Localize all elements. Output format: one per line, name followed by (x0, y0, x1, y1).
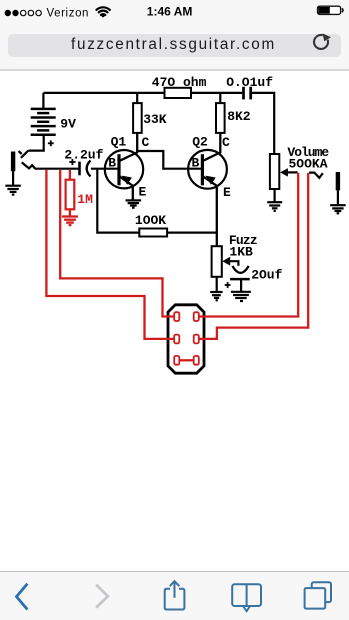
capacitor C3 20uf plus sign (225, 282, 231, 288)
resistor R3 8K2 stub (219, 93, 221, 103)
wire top rail middle segment (191, 92, 242, 94)
fuzz wiper wire (230, 261, 239, 266)
footswitch pin 3 (174, 335, 179, 344)
svg-text:8K2: 8K2 (227, 109, 251, 124)
battery (318, 6, 343, 14)
wire fuzz pot to ground (216, 277, 218, 292)
footswitch pin 2 (194, 312, 199, 321)
transistor Q2 emitter (203, 176, 217, 246)
svg-text:33K: 33K (143, 112, 167, 127)
wire red input jack to footswitch pin4 (46, 170, 174, 339)
transistor Q2 collector (203, 133, 220, 161)
svg-text:B: B (108, 156, 116, 171)
svg-text:2.2uf: 2.2uf (64, 148, 103, 163)
wire input to cap (35, 168, 79, 170)
transistor Q1 emitter (120, 176, 133, 199)
wire output jack to ground (337, 190, 339, 204)
volume pot wiper arrow (280, 168, 288, 176)
resistor R3 8K2 body (216, 103, 225, 133)
ground (1M, red) (62, 215, 78, 217)
resistor R4 100K body (139, 229, 167, 237)
svg-text:E: E (139, 185, 147, 200)
wire Q1 base to 100K feedback (97, 169, 139, 233)
wire 100K to Q2 emitter (167, 232, 217, 234)
signal dots (5, 10, 19, 16)
transistor Q2 base bar (201, 154, 204, 185)
transistor Q1 circle (105, 150, 143, 188)
input jack J1 sleeve bar (11, 152, 15, 172)
footswitch pin 6 (194, 356, 199, 365)
capacitor C1 2.2uf curved plate (87, 160, 91, 176)
svg-text:5OOKA: 5OOKA (289, 157, 328, 172)
reload icon (314, 35, 328, 49)
wifi icon (96, 7, 109, 15)
wire jack to ground (12, 171, 14, 185)
wire battery top lead (42, 93, 44, 108)
wire 1M bottom lead (69, 209, 71, 216)
output jack J2 sleeve bar (336, 172, 340, 190)
capacitor C3 20uf straight plate (230, 278, 250, 281)
fuzz pot wiper arrow (222, 257, 230, 266)
red wiring (46, 170, 308, 360)
potentiometer VR1 Volume 500KA body (270, 154, 279, 189)
switch tick (19, 151, 22, 154)
resistor R2 33K stub (136, 93, 138, 103)
potentiometer VR2 Fuzz 1KB body (212, 246, 222, 277)
svg-text:C: C (222, 135, 230, 150)
wire cap to Q1 base (91, 168, 118, 170)
input jack tip contact (22, 162, 36, 168)
svg-text:1KB: 1KB (229, 244, 253, 259)
wire red link bottom pins (179, 359, 194, 361)
book icon (232, 584, 261, 611)
wire volume pot to ground (274, 189, 276, 202)
ground (output jack) (330, 204, 346, 206)
svg-text:1:46 AM: 1:46 AM (147, 5, 193, 19)
wire red input to footswitch pin1 (60, 170, 174, 317)
wire red volume wiper to footswitch pin3 (199, 173, 299, 317)
svg-text:2Ouf: 2Ouf (251, 267, 282, 282)
capacitor C1 2.2uf plus sign (69, 159, 75, 165)
svg-text:Q1: Q1 (111, 134, 127, 149)
footswitch connector outline (168, 305, 204, 373)
ground (20uf) (231, 291, 251, 293)
tabs icon (305, 582, 331, 608)
wire battery bottom lead (28, 135, 44, 151)
svg-text:47O ohm: 47O ohm (152, 75, 207, 90)
svg-text:Q2: Q2 (192, 134, 208, 149)
wire top rail left segment (43, 92, 164, 94)
resistor R5 1M body (66, 180, 75, 210)
capacitor C1 2.2uf left plate (78, 162, 81, 176)
wire red output jack to footswitch pin6 (199, 173, 309, 339)
toolbar: back chevron (17, 584, 28, 610)
capacitor C2 0.01uf plates (242, 87, 245, 100)
footswitch pin 4 (194, 335, 199, 344)
transistor Q1 collector (120, 133, 138, 161)
transistor Q2 emitter arrow (205, 176, 215, 185)
transistor Q1 emitter arrow (122, 176, 132, 185)
switch lever (battery to jack) (21, 151, 28, 158)
forward chevron (96, 585, 108, 608)
svg-text:O.O1uf: O.O1uf (226, 75, 273, 90)
battery B1 9V (31, 109, 56, 135)
resistor R1 470ohm body (165, 88, 192, 98)
output jack tip contact (309, 173, 323, 178)
svg-text:B: B (192, 156, 200, 171)
share icon (165, 581, 185, 609)
transistor Q2 circle (188, 150, 227, 189)
resistor R2 33K body (133, 103, 142, 133)
footswitch pin 5 (174, 356, 179, 365)
svg-text:E: E (223, 185, 231, 200)
svg-text:1M: 1M (77, 192, 93, 207)
svg-text:1OOK: 1OOK (135, 213, 166, 228)
ground (fuzz pot) (210, 291, 222, 293)
ground (Q1 emitter) (126, 199, 142, 201)
wire 20uf to ground (240, 279, 242, 291)
wire Q1 collector to Q2 base (137, 151, 201, 169)
battery plus sign (48, 140, 54, 146)
volume wiper wire (288, 171, 298, 173)
resistor R5 1M top lead (69, 170, 71, 180)
footswitch pin 1 (174, 312, 179, 321)
wire top rail right segment (252, 93, 275, 154)
ground (input jack) (5, 185, 20, 187)
ground (volume pot) (267, 201, 282, 203)
svg-text:C: C (142, 135, 150, 150)
svg-text:fuzzcentral.ssguitar.com: fuzzcentral.ssguitar.com (71, 36, 276, 53)
svg-text:Verizon: Verizon (47, 7, 90, 19)
svg-text:9V: 9V (60, 117, 76, 132)
transistor Q1 base bar (117, 154, 120, 185)
capacitor C3 20uf curved plate (232, 266, 248, 273)
